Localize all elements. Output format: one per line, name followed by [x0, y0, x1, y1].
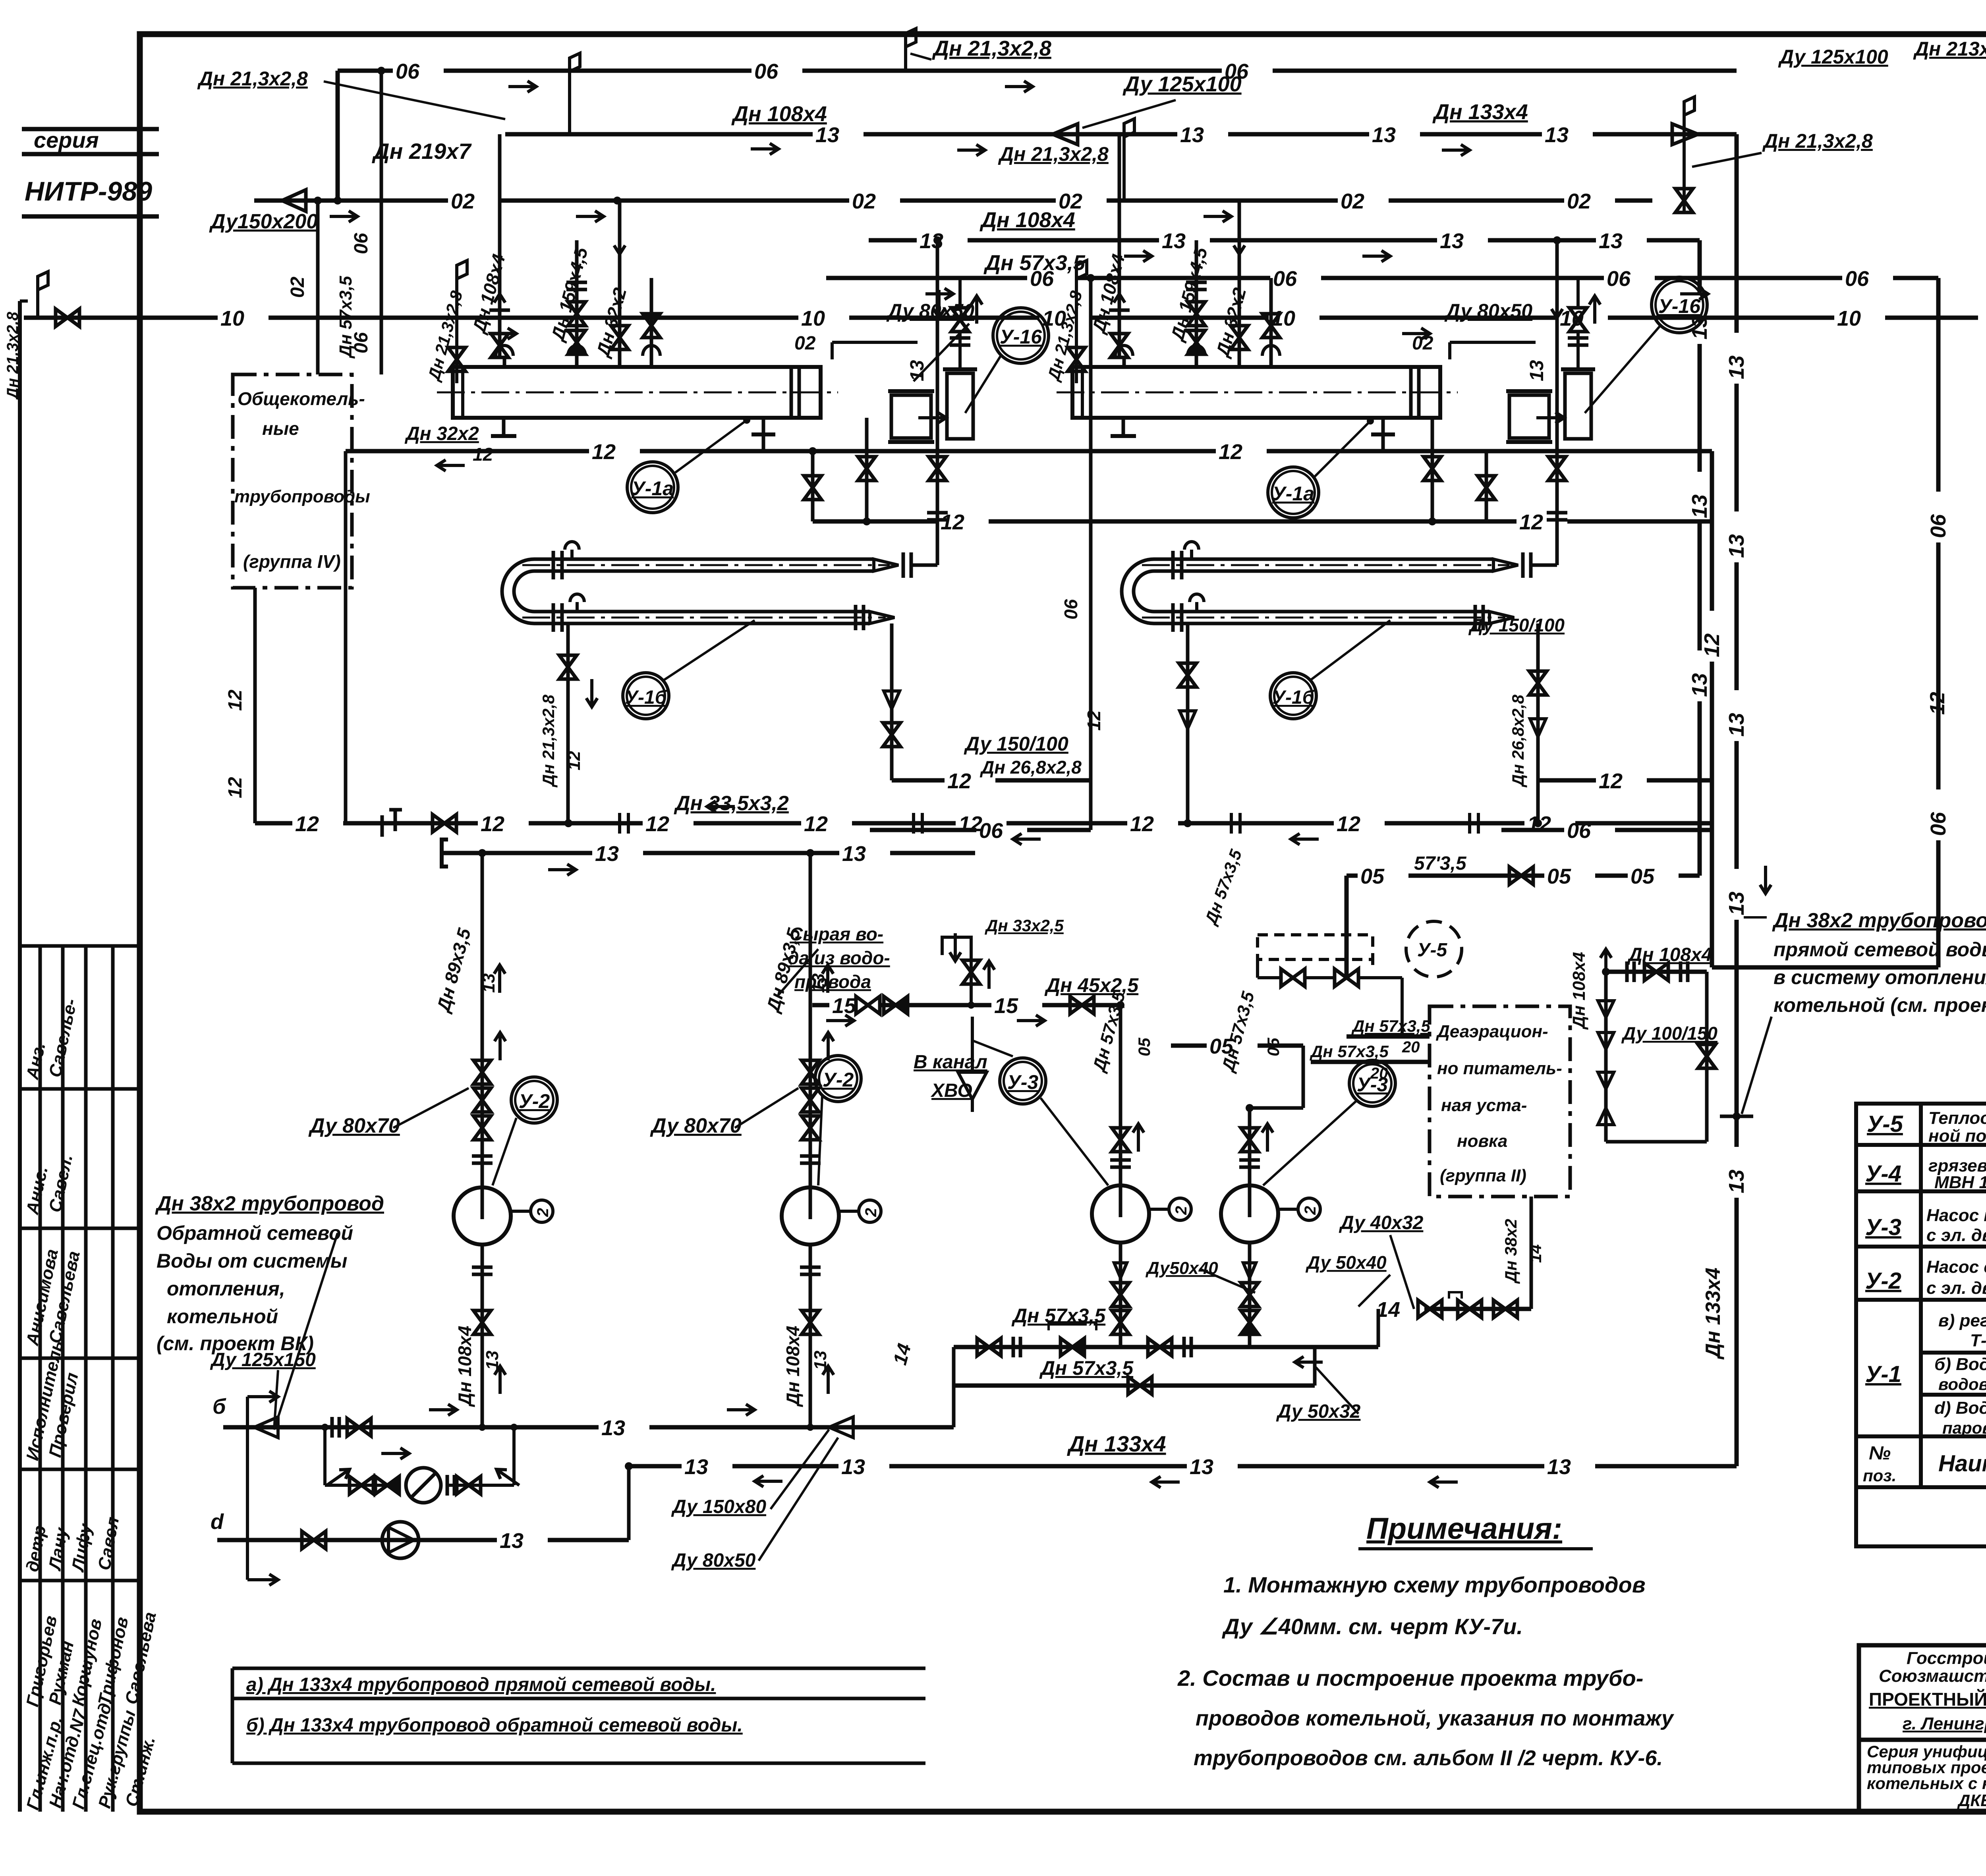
svg-text:13: 13 — [1162, 229, 1186, 253]
svg-text:новка: новка — [1457, 1131, 1507, 1151]
svg-text:У-1б: У-1б — [1273, 687, 1315, 708]
svg-text:трубопроводы: трубопроводы — [234, 487, 370, 506]
svg-text:Ду 80х70: Ду 80х70 — [308, 1114, 400, 1137]
overflow regulator assembly У-16 right — [1509, 395, 1549, 438]
svg-text:Общекотель-: Общекотель- — [238, 388, 365, 409]
valve risers above vessel left — [498, 134, 502, 356]
junction dots on trunk lines — [377, 67, 385, 75]
svg-text:У-4: У-4 — [1865, 1161, 1901, 1187]
svg-text:13: 13 — [841, 1455, 865, 1479]
wire corner to main line — [627, 1466, 631, 1540]
pipe 14 feed header left part — [954, 1345, 1378, 1349]
svg-text:Дн 21,3х2,8: Дн 21,3х2,8 — [197, 68, 308, 90]
svg-text:12: 12 — [1700, 633, 1724, 657]
reducer Ду125х150 — [254, 1417, 278, 1438]
pipe 12 drain stub left — [892, 778, 945, 783]
svg-text:2: 2 — [862, 1208, 880, 1217]
valve on return — [347, 1419, 371, 1436]
svg-text:Дн 38х2: Дн 38х2 — [1501, 1219, 1520, 1284]
svg-text:Т- 22-1: Т- 22-1 — [1970, 1331, 1986, 1350]
svg-text:Ду 150/100: Ду 150/100 — [1468, 615, 1565, 635]
wire 02 to left regulator — [832, 341, 918, 344]
label circle У-16 left — [993, 308, 1049, 363]
svg-text:провода: провода — [794, 971, 871, 992]
label circle У-1a left — [627, 462, 678, 513]
signature table grid — [20, 946, 140, 1812]
vent right with valve — [1683, 143, 1686, 212]
svg-text:Дн 108х4: Дн 108х4 — [454, 1326, 475, 1407]
bottom-left note box a/b — [232, 1668, 925, 1763]
svg-text:б) Водоподогреватель: б) Водоподогреватель — [1934, 1355, 1986, 1374]
svg-text:13: 13 — [1599, 229, 1623, 253]
svg-text:13: 13 — [479, 973, 498, 993]
discharge from pump У-2 #2 — [809, 1245, 812, 1427]
svg-text:Ду50х40: Ду50х40 — [1145, 1258, 1218, 1278]
svg-text:02: 02 — [794, 333, 816, 354]
valve — [1418, 1300, 1442, 1318]
svg-text:У-5: У-5 — [1417, 940, 1447, 961]
svg-text:Дн 57х3,5: Дн 57х3,5 — [1310, 1042, 1389, 1061]
pipe 20 stub2 — [1311, 1060, 1430, 1064]
discharge from pump У-2 #1 — [481, 1245, 484, 1427]
pipe 13 return line б — [223, 1425, 599, 1430]
svg-text:Дн 57х3,5: Дн 57х3,5 — [336, 276, 355, 359]
suction to feed pump У-3 #1 — [1119, 1005, 1122, 1185]
svg-text:02: 02 — [1567, 189, 1591, 213]
svg-text:Дн 21,3х2,8: Дн 21,3х2,8 — [998, 143, 1109, 165]
svg-text:в) регулятор перелива: в) регулятор перелива — [1938, 1311, 1986, 1330]
svg-text:Насос подпиточный 2К-6: Насос подпиточный 2К-6 — [1926, 1206, 1986, 1225]
suction riser to pump У-2 #2 — [809, 853, 812, 1187]
label circle У-3 #2 — [1349, 1060, 1395, 1106]
svg-text:Наименование: Наименование — [1938, 1451, 1986, 1476]
signature rotated texts — [23, 997, 160, 1812]
svg-text:13: 13 — [1547, 1455, 1571, 1479]
wire mud trap loop left — [1604, 972, 1608, 1142]
svg-text:13: 13 — [1725, 355, 1748, 379]
left signature strip outer line — [18, 301, 22, 1812]
svg-text:серия: серия — [34, 127, 99, 152]
rotatable blind flange symbol — [381, 815, 384, 837]
svg-text:Теплообменник Водоводя-: Теплообменник Водоводя- — [1928, 1108, 1986, 1128]
svg-text:12: 12 — [1519, 510, 1543, 534]
svg-text:Дн 21,3х2,8: Дн 21,3х2,8 — [4, 311, 21, 400]
svg-text:Дн 133х4: Дн 133х4 — [1432, 100, 1528, 124]
svg-text:Дн 108х4: Дн 108х4 — [1569, 952, 1589, 1030]
pipe 10 atmospheric header — [24, 316, 218, 320]
pipe Дн108х4 to mud trap — [1606, 970, 1707, 974]
pipe 15 raw water — [812, 1003, 829, 1007]
svg-text:У-1а: У-1а — [632, 477, 674, 500]
svg-text:б: б — [213, 1395, 226, 1419]
svg-text:(см. проект ВК): (см. проект ВК) — [156, 1332, 314, 1355]
air vent on 13 header left end — [568, 99, 571, 134]
svg-text:ПРОЕКТНЫЙ ИНСТИТУТ N1: ПРОЕКТНЫЙ ИНСТИТУТ N1 — [1869, 1689, 1986, 1710]
svg-text:Дн 21,3х2,8: Дн 21,3х2,8 — [539, 695, 558, 787]
svg-text:13: 13 — [1440, 229, 1464, 253]
svg-text:Дн 133х4: Дн 133х4 — [1702, 1268, 1725, 1360]
valve Дн108х4 — [1644, 963, 1668, 980]
air vent riser top center — [904, 47, 907, 71]
reducer Ду125х100 on 13 header — [1053, 124, 1078, 145]
pipe 12 main drain collector — [255, 821, 292, 826]
riser 13 to left U-tube — [936, 240, 939, 565]
series label block top-left — [22, 129, 159, 216]
svg-text:ной подпиточной воды: ной подпиточной воды — [1928, 1126, 1986, 1146]
svg-text:05: 05 — [1547, 865, 1571, 888]
pipe 12 drain stub right — [1538, 778, 1596, 783]
svg-text:12: 12 — [1337, 812, 1360, 836]
svg-text:(группа IV): (группа IV) — [243, 551, 341, 572]
svg-text:ХВО: ХВО — [930, 1080, 972, 1101]
valve on 15 right — [1070, 996, 1094, 1014]
svg-text:12: 12 — [225, 777, 246, 798]
svg-text:12: 12 — [958, 812, 982, 836]
svg-text:У-2: У-2 — [1865, 1268, 1901, 1294]
svg-text:Ду 150х80: Ду 150х80 — [671, 1496, 766, 1517]
equipment list table — [1856, 1104, 1986, 1546]
svg-text:57'3,5: 57'3,5 — [1414, 853, 1467, 874]
svg-text:Дн 57х3,5: Дн 57х3,5 — [1039, 1357, 1134, 1379]
svg-text:прямой сетевой воды: прямой сетевой воды — [1773, 938, 1986, 961]
svg-text:1. Монтажную схему трубопро: 1. Монтажную схему трубопроводов — [1223, 1572, 1646, 1597]
pipe 05 suction — [1171, 1044, 1207, 1048]
svg-text:Дн 38х2 трубопровод: Дн 38х2 трубопровод — [155, 1192, 384, 1215]
svg-text:Дн 219х7: Дн 219х7 — [372, 139, 472, 164]
pipe 06 drain stub left — [870, 828, 976, 832]
svg-text:13: 13 — [815, 123, 839, 147]
svg-text:12: 12 — [941, 510, 964, 534]
svg-text:13: 13 — [842, 842, 866, 866]
common boiler-house pipelines box группа IV — [233, 374, 352, 588]
svg-text:d: d — [211, 1510, 224, 1534]
drain from right vessel — [1431, 418, 1434, 521]
pump У-2 #1 — [454, 1187, 511, 1245]
svg-text:Дн 57х3,5: Дн 57х3,5 — [1351, 1017, 1430, 1035]
svg-text:05: 05 — [1360, 865, 1385, 888]
svg-text:14: 14 — [1526, 1244, 1545, 1263]
label circle У-2 #2 — [815, 1056, 861, 1102]
valve on pipe 10 left end — [56, 309, 79, 326]
svg-text:с эл. двигат. А-2-72-2: с эл. двигат. А-2-72-2 — [1926, 1278, 1986, 1298]
svg-text:12: 12 — [947, 769, 971, 793]
valve at V-5 right — [1335, 969, 1358, 986]
svg-text:У-1а: У-1а — [1272, 483, 1314, 505]
U-tube steam water heater У-1б right — [1154, 558, 1493, 561]
svg-text:в систему отопления: в систему отопления — [1773, 966, 1986, 988]
label circle У-16 right — [1652, 277, 1707, 333]
svg-text:Дн 213х2,8: Дн 213х2,8 — [1913, 38, 1986, 60]
svg-text:проводов котельной, указания: проводов котельной, указания по монтажу — [1196, 1706, 1675, 1730]
svg-text:06: 06 — [754, 60, 779, 83]
check valve on 15 — [884, 996, 908, 1014]
svg-text:2: 2 — [534, 1208, 552, 1217]
svg-text:02: 02 — [852, 189, 876, 213]
svg-text:Дн 108х4: Дн 108х4 — [782, 1326, 803, 1407]
valve — [1148, 1338, 1172, 1356]
check valve on loop — [375, 1476, 399, 1494]
pipe 13 main supply Дн133х4 — [629, 1464, 682, 1469]
svg-text:ные: ные — [262, 418, 299, 439]
svg-text:06: 06 — [979, 819, 1003, 843]
U-tube steam water heater У-1б left — [534, 558, 874, 561]
svg-text:13: 13 — [1725, 713, 1748, 737]
wire 06 drop between groups — [1089, 278, 1093, 830]
discharge from feed pump У-3 #2 — [1248, 1243, 1252, 1347]
svg-text:Сырая во-: Сырая во- — [790, 924, 883, 944]
pipe 05 feedwater suction header — [1347, 874, 1358, 878]
svg-text:06: 06 — [351, 233, 372, 254]
wire 14 step — [1377, 1309, 1380, 1347]
drain from left vessel — [865, 418, 869, 521]
svg-text:20: 20 — [1402, 1038, 1420, 1056]
svg-text:13: 13 — [601, 1416, 625, 1440]
svg-text:12: 12 — [1599, 769, 1623, 793]
svg-text:У-3: У-3 — [1007, 1071, 1039, 1093]
svg-text:г. Ленинград 1970г: г. Ленинград 1970г — [1903, 1714, 1986, 1733]
svg-text:Дн 26,8х2,8: Дн 26,8х2,8 — [1509, 695, 1527, 787]
svg-text:12: 12 — [295, 812, 319, 836]
valve on 05 header — [1509, 867, 1533, 884]
valve on loop right — [457, 1476, 481, 1494]
svg-text:Ду 40х32: Ду 40х32 — [1339, 1212, 1424, 1233]
svg-text:12: 12 — [592, 440, 616, 464]
riser 13 to right U-tube — [1555, 240, 1559, 565]
tee tick on riser — [1720, 1115, 1753, 1118]
pipe 13 Дн108х4 second header — [869, 238, 917, 243]
valve — [1061, 1338, 1084, 1356]
svg-text:В канал: В канал — [914, 1052, 987, 1073]
svg-text:13: 13 — [1688, 494, 1712, 518]
pipe 14 bypass Дн57х3,5 — [954, 1384, 1315, 1388]
wire 05 drop to V-5 — [1345, 876, 1349, 978]
svg-text:Ду 50х32: Ду 50х32 — [1276, 1401, 1361, 1422]
reducer Ду150х200 on steam header — [282, 190, 306, 211]
label circle У-3 #1 — [1000, 1058, 1046, 1104]
svg-text:Ду 80х70: Ду 80х70 — [650, 1114, 742, 1137]
svg-text:13: 13 — [1725, 534, 1748, 558]
svg-text:12: 12 — [645, 812, 669, 836]
pipe 06 right riser — [1936, 278, 1941, 492]
svg-text:Ду 125х100: Ду 125х100 — [1778, 46, 1888, 68]
svg-text:но питатель-: но питатель- — [1437, 1059, 1562, 1078]
reducer Ду150х80 — [829, 1417, 853, 1438]
svg-text:котельной: котельной — [167, 1305, 278, 1328]
svg-text:ДКВР.: ДКВР. — [1957, 1791, 1986, 1810]
pipe 13 network water top header — [505, 132, 813, 137]
svg-text:Госстрой СССР: Госстрой СССР — [1907, 1648, 1986, 1668]
svg-text:Дн 33х2,5: Дн 33х2,5 — [985, 916, 1064, 935]
svg-text:d) Водоподогреватель: d) Водоподогреватель — [1934, 1398, 1986, 1418]
pipe 12 drain header — [813, 519, 938, 524]
wire 14 drop to return — [952, 1347, 956, 1427]
blind plug cap — [442, 840, 448, 867]
svg-text:06: 06 — [396, 60, 420, 83]
svg-text:пароводяной МВН 1437-05: пароводяной МВН 1437-05 — [1942, 1419, 1986, 1437]
svg-text:2: 2 — [1302, 1206, 1319, 1215]
svg-text:06: 06 — [1030, 267, 1054, 291]
drain from right U-tube — [1186, 623, 1190, 823]
valve — [977, 1338, 1001, 1356]
svg-text:У-3: У-3 — [1865, 1214, 1901, 1240]
wire 06 riser bottom jog — [1712, 965, 1938, 970]
svg-text:10: 10 — [1837, 307, 1861, 330]
svg-text:Обратной сетевой: Обратной сетевой — [156, 1222, 353, 1244]
svg-text:Ду 150/100: Ду 150/100 — [964, 733, 1068, 755]
arrow down on riser — [1760, 866, 1771, 894]
svg-text:12: 12 — [473, 444, 493, 465]
pipe 06 lower header — [826, 276, 1027, 280]
pump У-2 #2 — [782, 1187, 839, 1245]
svg-text:12: 12 — [1084, 710, 1104, 731]
svg-text:12: 12 — [1130, 812, 1154, 836]
svg-text:У-2: У-2 — [823, 1069, 854, 1091]
pipe 14 Дн38х2 from deaerator — [1530, 1197, 1533, 1309]
svg-text:12: 12 — [804, 812, 828, 836]
svg-text:13: 13 — [1180, 123, 1204, 147]
svg-text:10: 10 — [801, 307, 825, 330]
svg-text:02: 02 — [287, 276, 308, 298]
wire 06 into box — [380, 71, 383, 374]
valve risers above vessel right — [1118, 134, 1121, 356]
valve on 12 collector — [433, 814, 456, 832]
svg-text:12: 12 — [1926, 692, 1949, 715]
sketchy circle У-5 — [1406, 921, 1462, 977]
pipe 13 right riser Дн133х4 — [1735, 134, 1739, 333]
svg-text:У-16: У-16 — [1000, 326, 1042, 348]
suction to feed pump У-3 #2 — [1248, 1108, 1252, 1185]
svg-text:НИТР-989: НИТР-989 — [25, 176, 152, 207]
svg-text:ная уста-: ная уста- — [1441, 1096, 1527, 1115]
pump У-3 #2 — [1221, 1185, 1278, 1243]
svg-text:МВН 1280-15: МВН 1280-15 — [1934, 1173, 1986, 1192]
svg-text:Союзмашстройпроект: Союзмашстройпроект — [1879, 1666, 1986, 1686]
overflow regulator assembly У-16 left — [891, 395, 931, 438]
pipe 02 steam header Дн219х7 — [254, 199, 448, 203]
svg-text:13: 13 — [500, 1529, 524, 1553]
svg-text:Ду ∠40мм. см. черт КУ-7и.: Ду ∠40мм. см. черт КУ-7и. — [1222, 1614, 1523, 1639]
label circle У-1a right — [1268, 467, 1319, 518]
svg-text:Дн 33,5х3,2: Дн 33,5х3,2 — [674, 792, 789, 815]
svg-text:У-16: У-16 — [1658, 295, 1701, 317]
wire 06 left drop — [336, 71, 340, 201]
svg-text:06: 06 — [1845, 267, 1869, 291]
svg-text:Воды от системы: Воды от системы — [156, 1250, 348, 1272]
svg-text:05: 05 — [1135, 1038, 1153, 1056]
valve on 15 — [856, 996, 880, 1014]
svg-text:06: 06 — [1926, 514, 1950, 538]
discharge from feed pump У-3 #1 — [1119, 1243, 1122, 1347]
wire 12 from common box — [253, 588, 257, 823]
svg-text:Дн 21,3х2,8: Дн 21,3х2,8 — [1762, 130, 1873, 152]
valve on line d — [302, 1531, 326, 1549]
svg-text:Дн 38х2 трубопровод: Дн 38х2 трубопровод — [1772, 909, 1986, 932]
svg-text:У-5: У-5 — [1867, 1111, 1903, 1137]
wire 12 jog — [811, 451, 815, 521]
svg-text:Ду 80х50: Ду 80х50 — [1444, 300, 1532, 322]
wire 02 to right regulator — [1450, 341, 1536, 344]
label circle У-1б right — [1270, 673, 1316, 719]
svg-text:05: 05 — [1264, 1038, 1283, 1056]
svg-text:Насос сетевой 4К-6ª: Насос сетевой 4К-6ª — [1926, 1257, 1986, 1277]
svg-text:Дн 108х4: Дн 108х4 — [979, 208, 1075, 232]
title block — [1859, 1645, 1986, 1812]
svg-text:Ду 100/150: Ду 100/150 — [1621, 1023, 1717, 1044]
svg-text:02: 02 — [451, 189, 475, 213]
svg-text:Примечания:: Примечания: — [1366, 1512, 1562, 1546]
svg-text:13: 13 — [684, 1455, 708, 1479]
vent loop above 15 line — [970, 953, 973, 1005]
svg-text:№: № — [1869, 1443, 1891, 1464]
wire mud trap loop right — [1705, 972, 1709, 1142]
svg-text:06: 06 — [1061, 599, 1081, 620]
svg-text:06: 06 — [1273, 267, 1297, 291]
svg-text:13: 13 — [1545, 123, 1569, 147]
svg-text:12: 12 — [564, 751, 584, 770]
valve Ду100/150 — [1698, 1044, 1716, 1068]
extra flow arrows on headers — [508, 81, 536, 92]
valve — [1493, 1300, 1517, 1318]
air vent on pipe 10 outside frame — [38, 272, 48, 318]
drain Дн26,8х2,8 right U-tube — [1536, 623, 1540, 823]
svg-text:14: 14 — [1376, 1298, 1400, 1322]
pipe 14 feed header right part — [1424, 1307, 1531, 1311]
svg-text:Ду 50х40: Ду 50х40 — [1305, 1252, 1387, 1273]
drain Дн21,3х2,8 from left U-tube — [566, 623, 570, 823]
water heater vessel У-1а right МВН — [1072, 367, 1440, 418]
pipe 13 second right riser — [1698, 240, 1702, 293]
vent on steam header mid — [1122, 165, 1126, 201]
svg-text:поз.: поз. — [1863, 1466, 1896, 1485]
svg-text:трубопроводов см. альбом II: трубопроводов см. альбом II /2 черт. КУ-… — [1194, 1746, 1663, 1770]
svg-text:05: 05 — [1631, 865, 1655, 888]
deaerator feed unit box группа II — [1430, 1006, 1570, 1197]
svg-text:отопления,: отопления, — [167, 1278, 285, 1300]
svg-text:12: 12 — [225, 689, 246, 711]
svg-text:2: 2 — [1173, 1206, 1190, 1215]
svg-text:Дн 21,3х2,8: Дн 21,3х2,8 — [932, 37, 1051, 60]
wire mud trap loop bottom — [1606, 1140, 1707, 1144]
svg-text:13: 13 — [1372, 123, 1396, 147]
svg-text:б) Дн 133х4 трубопровод о: б) Дн 133х4 трубопровод обратной сетевой… — [246, 1715, 743, 1736]
svg-text:Дн 108х4: Дн 108х4 — [1627, 944, 1712, 965]
svg-text:(группа II): (группа II) — [1440, 1166, 1526, 1185]
pipe 12 drop right — [1710, 451, 1714, 611]
svg-text:У-1б: У-1б — [625, 687, 667, 708]
svg-text:Дн 108х4: Дн 108х4 — [731, 102, 827, 126]
svg-text:Дн 32х2: Дн 32х2 — [404, 423, 479, 444]
suction riser to pump У-2 #1 — [481, 853, 484, 1187]
svg-text:Ду150х200: Ду150х200 — [209, 210, 318, 233]
svg-text:20: 20 — [1370, 1065, 1388, 1082]
svg-text:У-1: У-1 — [1865, 1361, 1901, 1387]
wire 12 left drop — [344, 451, 348, 823]
svg-text:12: 12 — [481, 812, 504, 836]
svg-text:с эл. двигат. А-42-2: с эл. двигат. А-42-2 — [1926, 1226, 1986, 1245]
svg-text:06: 06 — [1926, 812, 1950, 836]
drain from left U-tube right end — [890, 623, 894, 780]
svg-text:У-2: У-2 — [519, 1090, 550, 1112]
svg-text:10: 10 — [220, 307, 244, 330]
svg-text:15: 15 — [994, 994, 1018, 1018]
svg-text:13: 13 — [595, 842, 619, 866]
pipe 06 drain stub right — [1501, 828, 1564, 832]
svg-text:13: 13 — [1526, 360, 1547, 381]
valve on orifice loop — [350, 1476, 373, 1494]
svg-text:2. Состав и построение про: 2. Состав и построение проекта трубо- — [1177, 1666, 1643, 1691]
svg-text:Деаэрацион-: Деаэрацион- — [1435, 1022, 1548, 1041]
label circle У-1б left — [623, 673, 669, 719]
